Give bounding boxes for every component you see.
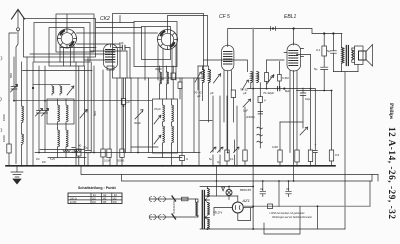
component [101,149,105,157]
wire [38,114,40,153]
socket1 pin drops [60,46,74,66]
wire [13,90,15,101]
svg-text:5µ: 5µ [314,67,318,71]
resistor R6 [295,150,299,162]
wire [302,95,304,128]
wire [0,129,3,132]
pins CF5 [224,71,231,123]
svg-text:100: 100 [119,41,124,45]
coil can 1 [47,99,74,124]
wire [60,85,62,95]
pin wire + resistor R3 [102,70,104,149]
wire [297,90,333,92]
wire x76 [75,62,77,165]
wire [148,157,182,159]
title vertical [387,103,397,219]
svg-text:AZ1: AZ1 [242,198,250,203]
wire [280,121,303,123]
wire [125,78,127,153]
wire [66,99,68,124]
svg-text:EBL1: EBL1 [284,14,296,20]
wire [293,71,295,182]
inner box 2b [142,27,171,60]
wire [244,107,246,165]
svg-text:µ: µ [264,98,266,102]
wire [279,162,281,165]
wire x9 + resistor R1 [8,101,10,144]
component [278,74,282,81]
trimmer C3 [44,66,46,110]
shield box B [34,23,90,63]
component [77,149,81,156]
wire [232,98,234,123]
wire [52,85,54,95]
wire [77,44,121,78]
bottom filter L4 [48,157,86,159]
connector symbol on anode line [271,27,276,31]
resistor R5 [121,78,123,149]
svg-text:40: 40 [78,144,82,148]
wire [21,123,23,134]
wire [226,96,228,165]
trimmer arrow right [80,110,87,119]
ground symbol [11,166,23,184]
wire [144,27,146,80]
wire [296,162,298,165]
top coil pair L3 [33,84,70,86]
AC wave symbol [259,122,261,148]
svg-text:µF: µF [210,91,214,95]
wire x148.5 [148,78,150,153]
table [68,186,122,204]
svg-text:30µF: 30µF [134,121,141,125]
wire [130,78,132,153]
capacitor C11 plates [330,51,336,53]
output transformer T4 [342,34,354,72]
wire [369,181,371,206]
wire [96,27,142,29]
wire [113,48,130,79]
main ground bus [6,165,335,167]
svg-text:CF 5: CF 5 [219,14,230,20]
svg-text:1M: 1M [270,75,275,79]
svg-text:5µ: 5µ [327,49,331,53]
switch [172,196,176,201]
wire [160,66,167,72]
wire [131,146,158,148]
cap C9 [313,150,317,152]
wire [259,83,261,97]
wire x117 [116,78,118,165]
small box on supply line [268,204,273,209]
antenna [12,10,25,164]
wire [36,109,43,117]
wire [323,70,325,91]
svg-text:32: 32 [286,187,290,191]
tube V2 CF5 [222,44,234,71]
svg-text:µF: µF [243,91,247,95]
node [333,33,335,35]
mains transformer T5 [176,189,210,230]
wire x138 [137,78,139,153]
trimmer capacitor C3 plates [43,111,48,114]
wire [154,135,161,144]
edge marks [1,57,2,61]
small box U [181,78,183,156]
svg-text:5-25: 5-25 [50,158,55,161]
wire [227,71,229,153]
screen resistor chain right of EBL1 [323,34,325,47]
wire [293,29,295,43]
IF transformer T4 [204,60,275,95]
wire [123,105,125,153]
wire [58,147,67,158]
wire [212,155,214,165]
cap + arrow right [300,127,308,135]
power mains [149,196,195,219]
wire [63,150,70,152]
resistor R9 [266,60,268,73]
wire [8,153,10,165]
capacitor C12 plates [321,67,328,69]
series cap on 88.6 line [278,86,280,90]
transformer T1b coils [58,128,60,147]
wire [171,49,173,81]
wire [84,48,113,60]
svg-text:µF: µF [197,94,201,98]
capacitor C16 plates [72,148,75,153]
wire [278,181,280,206]
cap C4 30uF [87,57,89,150]
wire [90,51,127,78]
wire [11,85,18,93]
svg-text:Schaltstellung : Punkt: Schaltstellung : Punkt [78,186,117,190]
wire x194 [193,78,195,153]
pilot lamp [200,187,253,200]
svg-text:37µF: 37µF [154,107,161,111]
component [107,149,111,158]
speaker LS [352,45,373,72]
wire [172,126,174,144]
electrolytic cap C8 [308,150,312,162]
wire x14 + trimmer C1 [13,57,15,86]
wire [44,114,46,153]
svg-text:≈6,3 v: ≈6,3 v [213,211,223,215]
shield box A (aerial coil outer) [24,19,96,58]
svg-text:1M: 1M [36,158,39,161]
svg-text:0,1: 0,1 [316,48,321,52]
wire [163,144,172,165]
wire [314,153,316,165]
component [121,99,125,105]
socket2 pin drops [162,49,164,81]
wire x27 [26,57,28,165]
cap C right vertical [332,34,334,51]
svg-text:0,3M: 0,3M [272,145,278,149]
supply line gray [243,205,370,207]
wire [181,161,183,165]
svg-text:8µF: 8µF [285,89,290,93]
node [272,28,274,30]
wire [22,106,24,123]
component [120,149,124,158]
wire [300,93,306,95]
wire [333,71,358,73]
wire [211,147,217,153]
wire [121,158,123,165]
component [171,73,176,80]
svg-text:32: 32 [260,187,264,191]
wire [42,109,49,117]
bottom row small parts [212,96,214,152]
wire [175,45,177,80]
inner box 2a [134,22,177,67]
svg-text:30µ: 30µ [83,146,88,150]
box2 internal verticals [119,16,121,23]
wire [253,228,345,230]
wire [236,106,238,165]
svg-text:1000: 1000 [2,135,6,142]
svg-text:2x100: 2x100 [70,202,77,204]
svg-text:CK2: CK2 [100,16,110,22]
wire [344,72,346,229]
wire [74,150,81,152]
gray AVC bus vertical [252,29,254,230]
coil L2 [22,134,24,145]
wire x33 + node [32,62,34,165]
svg-text:100-2x: 100-2x [70,198,78,200]
wire [248,88,316,90]
cross wires socket1 to socket2 [77,32,158,34]
svg-text:(1500): (1500) [246,115,255,119]
svg-text:70-32µF: 70-32µF [263,91,274,95]
trimmer arrow [243,99,251,107]
resistor R8 [278,62,280,75]
component [258,97,263,103]
svg-text:500: 500 [9,73,13,78]
tube V3 EBL1 [284,43,304,72]
wire [160,84,167,99]
component [178,82,182,89]
wire [296,71,298,151]
svg-text:12 A-14, -26, -29, -32: 12 A-14, -26, -29, -32 [387,127,397,219]
wire [266,82,268,89]
wire [219,155,221,165]
wire [372,175,378,182]
wire [60,47,96,49]
component [243,150,247,161]
wire [87,153,89,165]
component [180,156,185,161]
svg-text:0,1: 0,1 [230,157,234,161]
wire [78,156,80,165]
wire [264,206,300,234]
wire x82 + resistor R2 [78,66,80,149]
wire [66,128,68,147]
fuse [182,197,189,201]
wire [332,53,334,71]
arrows in can [154,115,161,124]
component [265,73,269,82]
wire [200,228,253,230]
cap rect C6 [231,90,235,98]
wire [163,123,172,126]
tube V1 CK2 side view [104,44,118,70]
pins [289,71,291,153]
svg-text:Wicklungen auf ein Netztransfo: Wicklungen auf ein Netztransformator [272,216,312,219]
node [284,88,286,90]
wire [278,81,280,89]
svg-text:× Wird bei Geräten mit getrenn: × Wird bei Geräten mit getrennter [269,212,305,215]
node [32,87,34,89]
coil L1 [21,62,23,106]
shield box 2 (IF section) [113,14,204,79]
wire [172,66,174,99]
component [278,150,282,162]
svg-text:0,3M: 0,3M [282,76,289,80]
wire [40,149,84,151]
svg-text:0,1M: 0,1M [104,159,110,163]
wire [317,206,319,229]
shield box D tall [56,14,94,52]
bus row 3 [122,175,373,182]
svg-text:U: U [186,157,188,161]
wire [157,45,159,80]
IF transformer T3 [194,66,221,122]
wire [58,124,67,128]
wire [331,161,333,165]
rectifier AZ1 [204,196,253,221]
svg-text:+: + [315,143,317,147]
long mid horizontal [35,152,200,154]
IF transformer T6 upper [160,72,162,84]
trimmer C2 [38,66,40,110]
wire [90,62,92,153]
wire from socket2 to T3 [168,16,208,67]
filter caps [260,181,291,197]
socket U1 top view [58,14,77,48]
wire [163,126,165,144]
svg-text:3µ: 3µ [217,160,220,164]
svg-text:10µ: 10µ [305,97,310,101]
svg-text:µF: µF [127,100,131,104]
wire [167,72,169,84]
node [293,28,295,30]
component [329,150,333,161]
extra bundle wires [84,66,86,165]
wire [314,89,316,150]
wire [67,86,74,95]
node [323,33,325,35]
svg-text:1µF: 1µF [243,109,248,113]
svg-text:5µ: 5µ [209,157,212,161]
svg-text:8650-55: 8650-55 [240,188,251,192]
wire [323,56,325,67]
wire [179,78,181,99]
cap C10 [331,91,333,151]
shield box C [49,28,84,67]
wire [172,99,174,123]
wire [218,147,224,153]
wire [257,127,263,143]
transformer T1a coils [58,99,60,124]
wire [102,157,104,165]
wire [96,22,134,24]
plugs [149,197,156,202]
wire [122,45,125,50]
antenna tap wire [9,33,17,101]
wire x199 [198,78,200,165]
IF transformer T2 coils [163,99,165,123]
IF can 2 [153,99,178,153]
wire [30,53,113,55]
wire [14,100,152,102]
bus row 2 [81,166,378,175]
wire [259,103,261,123]
trimmer capacitor C2 plates [37,111,42,114]
svg-text:50000: 50000 [117,159,125,163]
svg-text:1000: 1000 [2,114,6,121]
component [322,46,327,56]
wire [21,145,23,165]
wire [267,59,285,61]
wire [310,162,312,165]
EBL1 screen wiring [297,54,311,150]
wire [219,96,221,152]
wire [234,147,240,153]
wire [302,88,304,93]
capacitor C15 plates [258,112,263,114]
trimmer capacitor C1 plates [11,87,17,90]
horizontal y70.5 [23,70,93,72]
svg-text:30µF: 30µF [155,67,162,71]
capacitor C4 plates [85,150,91,152]
anode line top [228,29,342,47]
cap C5 [123,78,125,99]
trimmer arrow [135,110,143,119]
svg-text:Philips: Philips [388,103,394,119]
socket U2 top view [158,30,178,50]
wire [234,140,236,165]
wire [1,98,2,102]
svg-text:0,5: 0,5 [335,153,340,157]
wire x94 [93,66,95,153]
mid horizontals right [200,120,212,122]
component [225,150,229,161]
svg-text:500: 500 [93,111,97,116]
heater drop wire [216,166,218,196]
wire [109,158,111,165]
resistor R7 [279,122,281,150]
component [7,144,11,153]
pin wire + resistor R4 [109,70,111,149]
wires below T4 [250,83,252,89]
